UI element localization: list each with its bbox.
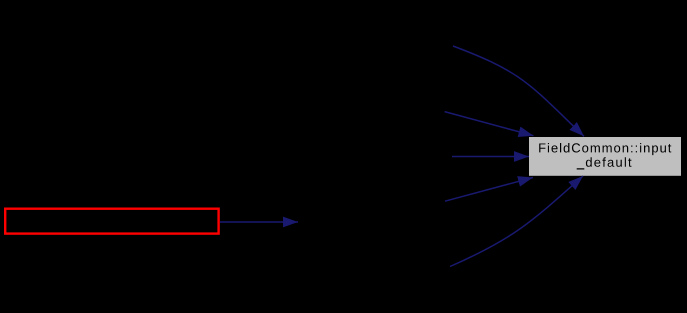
label line 2: _default (577, 157, 632, 169)
node: gray box FieldCommon::input_default (529, 137, 681, 176)
edge B: straight arrow to top-left corner (445, 112, 534, 136)
edge D: straight arrow to bottom-left corner (445, 178, 533, 202)
edge A: top curved arrow into box top (453, 46, 584, 136)
label line 1: FieldCommon::input (539, 143, 671, 155)
node: red-outlined caller box (label black-on-black, invisible) (5, 209, 218, 234)
wire: edge from red box to hidden middle node (220, 221, 298, 223)
edge C: horizontal arrow to left edge (452, 156, 529, 158)
edge E: bottom curved arrow into box bottom (450, 176, 583, 267)
